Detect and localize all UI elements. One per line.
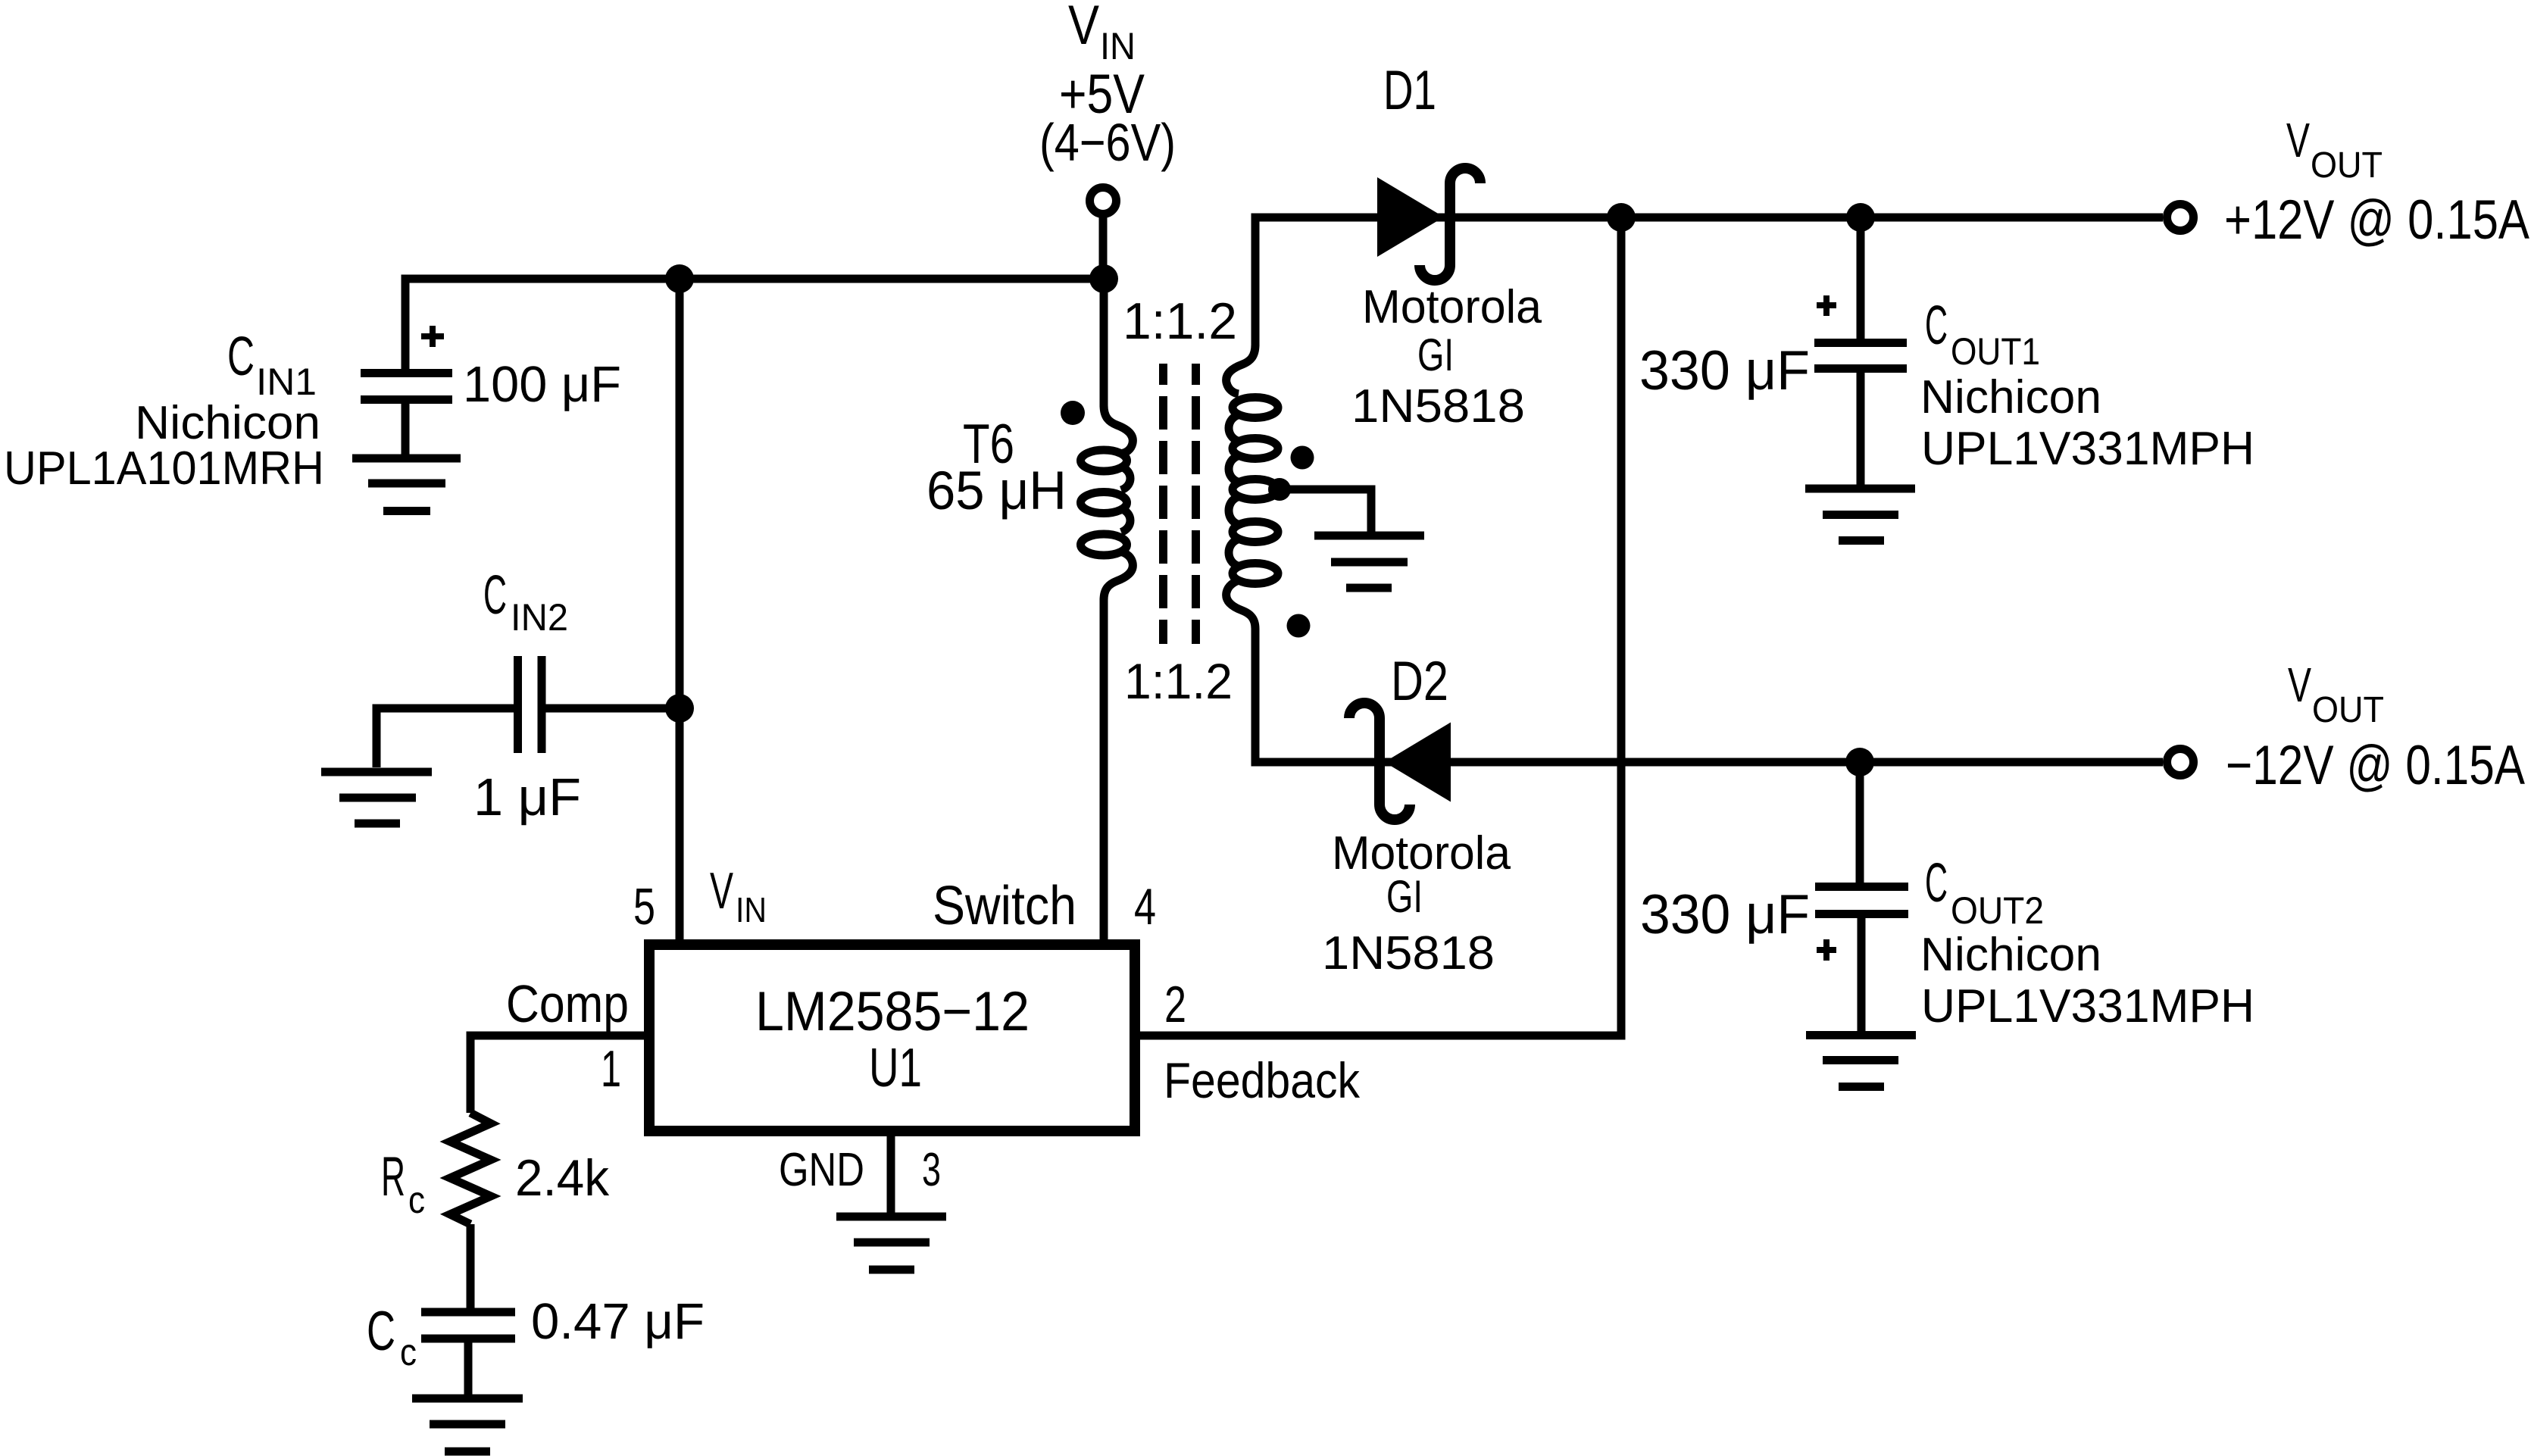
svg-text:Nichicon: Nichicon xyxy=(1920,371,2101,423)
svg-text:GI: GI xyxy=(1386,871,1423,922)
svg-text:1:1.2: 1:1.2 xyxy=(1123,292,1237,350)
ground COUT2 xyxy=(1806,1036,1916,1087)
svg-text:2.4k: 2.4k xyxy=(515,1149,610,1207)
svg-text:V: V xyxy=(710,862,733,920)
transformer T6 core dashed lines xyxy=(1159,364,1167,644)
wire Cc to ground xyxy=(464,1342,473,1395)
svg-text:2: 2 xyxy=(1164,976,1186,1033)
svg-text:330 μF: 330 μF xyxy=(1640,884,1810,945)
svg-text:V: V xyxy=(2286,113,2310,167)
ground CIN2 xyxy=(321,772,432,823)
svg-text:OUT: OUT xyxy=(2311,145,2383,186)
svg-text:C: C xyxy=(483,565,507,626)
svg-text:R: R xyxy=(381,1146,405,1208)
transformer T6 primary wire top xyxy=(1100,279,1108,407)
wire center tap to ground xyxy=(1280,489,1371,532)
transformer T6 secondary coil hooks xyxy=(1226,345,1255,394)
svg-text:OUT1: OUT1 xyxy=(1951,330,2040,373)
wire secondary top to D1 and +12V output rail xyxy=(1255,217,2163,346)
svg-text:D2: D2 xyxy=(1391,651,1448,712)
label plus COUT1 xyxy=(1817,295,1836,316)
wire feedback from U1 pin2 up to D1 node xyxy=(1140,217,1621,1036)
svg-text:330 μF: 330 μF xyxy=(1639,340,1810,401)
node junction dot VIN rail / primary xyxy=(1089,264,1118,293)
svg-text:1:1.2: 1:1.2 xyxy=(1124,653,1233,709)
node junction dot COUT1 xyxy=(1846,203,1875,232)
diode D1 triangle xyxy=(1377,177,1444,257)
ground COUT1 xyxy=(1805,489,1915,541)
svg-text:UPL1V331MPH: UPL1V331MPH xyxy=(1921,980,2254,1033)
node secondary center tap dot xyxy=(1268,478,1291,501)
svg-text:C: C xyxy=(1925,295,1948,356)
svg-text:C: C xyxy=(367,1301,395,1362)
svg-text:GI: GI xyxy=(1417,330,1454,380)
svg-text:C: C xyxy=(227,327,255,387)
resistor Rc zigzag xyxy=(450,1113,491,1224)
wire Rc to Cc xyxy=(467,1224,475,1308)
wire CIN2 left with corner to ground xyxy=(377,708,514,767)
svg-text:100 μF: 100 μF xyxy=(463,356,621,413)
svg-text:65 μH: 65 μH xyxy=(926,461,1067,521)
capacitor COUT1 plates xyxy=(1814,343,1907,369)
svg-text:V: V xyxy=(2288,658,2311,712)
svg-text:4: 4 xyxy=(1134,878,1156,936)
wire Vin rail from CIN1 to VIN terminal junction xyxy=(405,279,1104,369)
svg-text:OUT: OUT xyxy=(2312,690,2384,730)
svg-text:D1: D1 xyxy=(1383,60,1436,121)
transformer T6 primary coil loops xyxy=(1081,450,1127,471)
label plus COUT2 xyxy=(1817,939,1836,961)
capacitor Cc plates xyxy=(421,1312,515,1339)
transformer T6 primary wire bottom to U1 pin4 xyxy=(1100,598,1108,939)
capacitor CIN1 top plate xyxy=(361,369,452,377)
svg-text:1N5818: 1N5818 xyxy=(1351,380,1525,433)
svg-text:IN: IN xyxy=(736,890,767,930)
wire VIN terminal stub xyxy=(1099,201,1108,279)
ground CIN1 xyxy=(352,458,461,511)
svg-text:5: 5 xyxy=(633,878,655,936)
svg-text:LM2585−12: LM2585−12 xyxy=(755,981,1030,1042)
ground Cc xyxy=(412,1398,523,1451)
capacitor COUT1 wire top xyxy=(1857,217,1865,339)
svg-text:(4−6V): (4−6V) xyxy=(1039,113,1176,172)
capacitor CIN2 left plate xyxy=(514,656,522,753)
svg-text:1 μF: 1 μF xyxy=(473,767,581,826)
svg-text:−12V @ 0.15A: −12V @ 0.15A xyxy=(2226,735,2525,796)
svg-text:Nichicon: Nichicon xyxy=(1920,929,2101,981)
svg-text:UPL1A101MRH: UPL1A101MRH xyxy=(4,442,324,495)
wire VIN junction down to U1 pin5 xyxy=(676,279,684,939)
node junction dot CIN2/pin5 xyxy=(665,694,694,723)
terminal +12V (open circle) xyxy=(2167,205,2194,231)
wire COUT1 to ground xyxy=(1857,373,1865,485)
wire U1 pin3 GND xyxy=(887,1136,895,1213)
op-amp U1 LM2585-12 box xyxy=(649,945,1135,1131)
ground center tap xyxy=(1314,536,1424,588)
svg-text:IN: IN xyxy=(1100,25,1136,67)
terminal VIN (open circle) xyxy=(1090,188,1117,214)
wire secondary bottom to D2 and -12V output rail xyxy=(1255,629,2163,762)
svg-text:Comp: Comp xyxy=(506,974,629,1033)
ground U1 pin3 xyxy=(836,1217,946,1270)
capacitor COUT2 plates xyxy=(1815,887,1908,914)
transformer T6 secondary phase dot bottom xyxy=(1287,614,1311,638)
svg-text:0.47 μF: 0.47 μF xyxy=(531,1293,705,1350)
svg-text:1: 1 xyxy=(601,1040,621,1098)
svg-text:GND: GND xyxy=(779,1144,864,1196)
transformer T6 primary phase dot xyxy=(1061,401,1085,425)
svg-text:Motorola: Motorola xyxy=(1362,281,1542,333)
svg-text:U1: U1 xyxy=(869,1038,922,1098)
wire COUT2 to ground xyxy=(1858,917,1866,1032)
wire CIN2 right to junction xyxy=(545,705,680,713)
terminal -12V (open circle) xyxy=(2167,749,2194,776)
node junction dot COUT2 xyxy=(1845,748,1874,776)
svg-text:V: V xyxy=(1068,0,1099,56)
svg-text:Feedback: Feedback xyxy=(1164,1052,1361,1108)
svg-text:Switch: Switch xyxy=(933,876,1076,936)
capacitor COUT2 wire top xyxy=(1856,762,1864,883)
diode D2 triangle xyxy=(1385,723,1451,802)
diode D1 schottky cathode xyxy=(1420,168,1480,280)
svg-text:3: 3 xyxy=(922,1144,941,1196)
node junction dot rail/CIN2 branch xyxy=(665,264,694,293)
svg-text:UPL1V331MPH: UPL1V331MPH xyxy=(1921,423,2254,475)
capacitor CIN1 bottom plate xyxy=(361,395,452,404)
svg-text:C: C xyxy=(1925,853,1948,914)
label plus CIN1 xyxy=(421,326,444,347)
transformer T6 secondary coil loops xyxy=(1233,398,1278,418)
svg-text:c: c xyxy=(400,1331,417,1373)
wire CIN1 to ground xyxy=(402,404,410,455)
svg-text:1N5818: 1N5818 xyxy=(1322,927,1495,980)
svg-text:Nichicon: Nichicon xyxy=(135,397,320,449)
node junction dot D1 / feedback line xyxy=(1607,203,1636,232)
transformer T6 primary coil hooks xyxy=(1104,405,1133,454)
svg-text:c: c xyxy=(408,1179,425,1221)
svg-text:IN2: IN2 xyxy=(511,596,568,639)
svg-text:OUT2: OUT2 xyxy=(1951,889,2044,932)
svg-text:+12V @ 0.15A: +12V @ 0.15A xyxy=(2224,189,2529,251)
transformer T6 secondary phase dot top xyxy=(1291,446,1314,470)
diode D2 schottky cathode xyxy=(1349,703,1410,820)
capacitor CIN2 right plate xyxy=(538,656,546,753)
wire Comp from U1 pin1 xyxy=(470,1036,644,1113)
